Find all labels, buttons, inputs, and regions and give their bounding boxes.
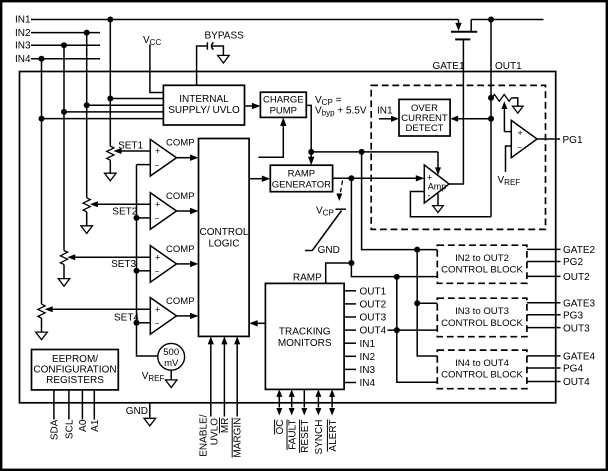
resistor SET1 [107,146,114,173]
svg-text:SDA: SDA [50,419,61,440]
svg-text:OUT1: OUT1 [360,286,387,297]
wire GND pin [149,403,151,419]
ground 500mV reference [165,380,177,388]
wire IN4 to internal supply [42,118,164,120]
node IN1 rail junction [107,17,113,23]
wire VCC to internal supply [150,45,164,93]
svg-text:IN2: IN2 [15,28,31,39]
wire GATE2 pin stub [527,248,561,250]
capacitor bypass plate 1 [206,42,208,49]
block EEPROM / configuration registers [32,350,119,390]
node OUT4 bus junction [394,327,400,333]
svg-text:IN3 to OUT3: IN3 to OUT3 [455,306,509,317]
ground PG1 divider [513,106,524,113]
node feeder junction IN3 [414,300,420,306]
wire SET4 wiper to comparator [45,306,151,312]
wire COMP3 output to control logic [177,261,199,267]
svg-text:+: + [155,304,160,314]
svg-text:OUT2: OUT2 [563,272,590,283]
wire COMP4 output to control logic [177,313,199,319]
wire PG3 pin stub [527,314,561,316]
wire dashed annotation arrow to ramp waveform [336,181,342,202]
svg-text:GATE1: GATE1 [432,61,464,72]
wire SDA pin [53,390,55,420]
svg-text:PG4: PG4 [563,364,583,375]
ground SET2 [81,226,93,234]
svg-text:PUMP: PUMP [270,106,297,117]
wire COMP1 output to control logic [177,155,199,161]
svg-text:−: − [155,267,160,276]
svg-text:CONTROL BLOCK: CONTROL BLOCK [441,265,523,276]
block over current detect [399,99,450,136]
wire IN1 rail right of MOSFET [471,19,543,21]
ground GND pin symbol [144,418,156,426]
svg-text:−: − [517,143,522,152]
wire tracking monitors to control logic [249,320,265,326]
svg-text:PG3: PG3 [563,311,583,322]
wire tracking monitor OUT3 stub [344,316,356,318]
op-amp comparator COMP3 [150,244,194,282]
wire IN1 to internal supply [110,98,163,100]
wire tracking monitor OUT4 stub [344,329,356,331]
svg-text:OUT4: OUT4 [563,377,590,388]
wire IN2 stub [31,32,100,34]
wire IN2 vertical drop to SET2 [86,33,88,198]
svg-text:SYNCH: SYNCH [314,420,325,455]
svg-text:SET3: SET3 [111,259,136,270]
ground amp [433,206,444,213]
svg-text:CONTROL: CONTROL [200,227,249,238]
wire tracking monitor IN2 stub [344,355,356,357]
svg-text:IN4: IN4 [15,54,31,65]
svg-text:IN1: IN1 [377,106,393,117]
wire amp feedback from OUT1 [410,192,491,217]
wire IN2 to internal supply [87,104,164,106]
svg-text:SET1: SET1 [118,140,143,151]
block internal supply / UVLO [163,85,244,125]
svg-text:GATE2: GATE2 [563,245,595,256]
wire feeder stub IN3 block [417,302,437,304]
svg-text:500: 500 [163,347,179,358]
wire ramp generator output to amp [333,175,425,181]
svg-text:OUT3: OUT3 [563,323,590,334]
svg-text:CONTROL BLOCK: CONTROL BLOCK [441,318,523,329]
svg-text:IN1: IN1 [15,15,31,26]
svg-text:MARGIN: MARGIN [233,418,244,458]
svg-text:IN2 to OUT2: IN2 to OUT2 [455,253,509,264]
svg-text:MR: MR [220,418,231,434]
wire SCL pin [68,390,70,420]
wire tracking monitor OUT1 stub [344,290,356,292]
svg-text:+: + [155,146,160,156]
wire tracking monitor IN3 stub [344,368,356,370]
wire OUT1 sense into over current detect [450,116,491,122]
svg-text:FAULT: FAULT [288,420,299,450]
wire OC pin [276,389,282,415]
svg-text:SUPPLY/ UVLO: SUPPLY/ UVLO [168,105,240,116]
wire A0 pin [81,390,83,420]
svg-text:SCL: SCL [65,419,76,439]
svg-text:IN4: IN4 [360,378,376,389]
svg-text:mV: mV [164,358,179,369]
wire bus down to IN4 block [397,277,438,382]
wire ENABLE/UVLO input to control logic [208,336,214,416]
wire control logic to ramp generator [249,176,270,182]
node ramp feed bus junction [394,274,400,280]
voltage reference 500mV [158,343,185,370]
node VREF bus junction COMP4 [134,320,140,326]
svg-text:COMP: COMP [166,244,195,255]
wire tracking monitor IN4 stub [344,382,356,384]
op-amp comparator COMP4 [150,296,194,334]
svg-text:ENABLE/: ENABLE/ [199,414,210,456]
wire COMP2 output to control logic [177,208,199,214]
svg-text:UVLO: UVLO [210,418,221,445]
wire VCP into ramp generator [308,152,314,165]
svg-text:A0: A0 [78,419,89,432]
node IN2 junction [84,30,90,36]
svg-text:-: - [428,191,431,201]
wire A1 pin [93,390,95,420]
transistor external MOSFET [451,20,477,40]
svg-text:BYPASS: BYPASS [205,31,245,42]
wire charge pump output to VCP rail [306,105,311,151]
wire IN1 vertical drop to SET1 [109,20,111,147]
block IN4 to OUT4 control block (dashed) [437,350,527,389]
svg-text:COMP: COMP [166,191,195,202]
svg-text:GATE4: GATE4 [563,352,595,363]
svg-text:OUT3: OUT3 [360,313,387,324]
node IN4 junction [39,56,45,62]
wire OUT2 pin stub [527,275,561,277]
wire SET1 wiper to comparator [114,148,151,154]
wire amp ground stem [437,193,439,205]
wire tracking monitor OUT2 stub [344,303,356,305]
svg-text:TRACKING: TRACKING [279,327,331,338]
wire OUT3 pin stub [527,327,561,329]
wire PG1 inverting input to VREF [506,146,512,172]
wire PG1 wiper to comparator [501,101,511,131]
svg-text:OC: OC [275,420,286,435]
wire SET2 wiper to comparator [90,201,150,207]
wire COMP3 inverting input [137,270,151,272]
wire IN1 top rail [31,19,459,21]
svg-text:GENERATOR: GENERATOR [272,179,331,190]
svg-text:IN3: IN3 [15,41,31,52]
op-amp comparator COMP1 [150,138,194,176]
block IN2 to OUT2 control block (dashed) [437,245,527,283]
wire GATE3 pin stub [527,302,561,304]
wire IN3 to internal supply [64,111,163,113]
svg-text:PG2: PG2 [563,257,583,268]
resistor SET4 [38,304,45,332]
wire SET3 wiper to comparator [67,254,150,260]
wire MARGIN input to control logic [234,336,240,416]
svg-text:INTERNAL: INTERNAL [179,94,229,105]
svg-text:RAMP: RAMP [288,168,315,179]
block ramp generator [270,165,332,192]
wire COMP4 inverting input [137,322,151,324]
svg-text:ALERT: ALERT [328,420,339,452]
ground SET3 [58,279,70,287]
svg-text:A1: A1 [90,419,101,432]
block IN3 to OUT3 control block (dashed) [437,298,527,337]
wire GATE4 pin stub [527,355,561,357]
wire IN3 stub [31,44,100,46]
node IN3 supply tap [61,109,67,115]
svg-text:−: − [155,161,160,170]
wire GATE1 vertical from gate to amp output [449,39,463,184]
node IN2 supply tap [84,102,90,108]
wire FAULT pin [289,389,295,415]
wire OUT1 vertical [490,20,492,217]
wire IN4 vertical drop to SET4 [41,59,43,304]
node ramp output tap [348,175,354,181]
svg-text:RESET: RESET [300,420,311,453]
wire OUT4 pin stub [527,381,561,383]
svg-text:MONITORS: MONITORS [278,338,332,349]
svg-text:CHARGE: CHARGE [263,95,304,106]
wire IN3 vertical drop to SET3 [63,45,65,250]
wire VCP drive into amp [435,152,441,175]
wire ramp to tracking monitors [326,263,352,283]
node ramp feed tracking tap [348,260,354,266]
wire feeder to IN3 and IN4 blocks [417,250,437,356]
node VREF bus junction COMP3 [134,268,140,274]
capacitor bypass plate 2 (curved) [212,42,214,49]
svg-text:IN2: IN2 [360,352,376,363]
node VCP rail ramp tap [308,149,314,155]
resistor SET3 [60,251,67,279]
svg-text:CONTROL BLOCK: CONTROL BLOCK [441,370,523,381]
svg-text:DETECT: DETECT [406,123,444,134]
node OUT1 sense junction [488,116,494,122]
wire bypass from internal supply top [197,46,207,85]
svg-text:OUT1: OUT1 [495,61,522,72]
op-amp comparator COMP2 [150,191,194,229]
wire COMP1 inverting input to VREF bus [137,164,151,166]
block IN1 to OUT1 control block (dashed) [371,85,545,229]
svg-text:REGISTERS: REGISTERS [46,375,104,386]
node OUT1 divider junction [488,95,494,101]
svg-text:IN1: IN1 [360,339,376,350]
wire PG1 output [537,138,560,140]
wire VCP rail [311,151,438,153]
ground bypass [218,55,230,63]
node OUT1 rail junction [488,17,494,23]
svg-text:GATE3: GATE3 [563,298,595,309]
svg-text:+: + [155,252,160,262]
node IN1 supply tap [107,96,113,102]
svg-text:EEPROM/: EEPROM/ [52,354,98,365]
svg-text:RAMP: RAMP [293,273,322,284]
chip boundary box [20,72,556,403]
wire ramp feed to control blocks [351,178,437,276]
op-amp PG1 comparator [511,120,537,157]
label ENABLE/UVLO pin [199,414,221,456]
wire IN1 into over current detect [379,116,399,122]
svg-text:SET2: SET2 [112,207,137,218]
label VCP ramp waveform [305,206,346,257]
wire IN4 stub [31,58,100,60]
svg-text:Amp: Amp [428,181,447,191]
svg-text:OUT2: OUT2 [360,300,387,311]
wire VREF bus vertical [137,165,159,356]
wire PG4 pin stub [527,367,561,369]
block charge pump [260,92,306,117]
block tracking monitors [265,283,344,389]
svg-text:OUT4: OUT4 [360,326,387,337]
svg-text:+: + [518,128,523,138]
node IN4 supply tap [39,116,45,122]
svg-text:CONFIGURATION: CONFIGURATION [33,364,116,375]
svg-text:COMP: COMP [166,296,195,307]
svg-text:IN4 to OUT4: IN4 to OUT4 [455,358,510,369]
wire COMP2 inverting input [137,217,151,219]
svg-text:GND: GND [318,245,340,256]
svg-text:−: − [155,319,160,328]
svg-text:GND: GND [126,406,148,417]
wire PG2 pin stub [527,261,561,263]
svg-text:+: + [155,199,160,209]
wire internal supply to charge pump [245,103,261,109]
wire MR input to control logic [221,336,227,416]
wire bypass to ground [212,46,224,55]
svg-text:PG1: PG1 [563,135,583,146]
svg-text:IN3: IN3 [360,365,376,376]
node VCP rail block feed tap [359,149,365,155]
node IN3 junction [61,42,67,48]
wire RESET pin [301,389,307,415]
label VCP equation [315,95,367,118]
wire 500mV to ground [170,370,172,380]
wire tracking OUT4 to control blocks [388,329,438,331]
wire SYNCH pin [315,389,321,415]
op-amp Amp gate driver [424,165,449,203]
node VREF bus junction COMP2 [134,215,140,221]
wire charge pump feed stub [259,117,287,157]
block control logic [199,139,250,337]
svg-text:−: − [155,214,160,223]
wire ALERT pin [329,389,335,415]
svg-text:LOGIC: LOGIC [208,239,239,250]
resistor SET2 [83,198,90,226]
resistor PG1 divider [492,95,518,107]
ground SET1 [105,173,117,181]
node feeder junction IN2 [414,247,420,253]
wire tracking monitor IN1 stub [344,342,356,344]
svg-text:COMP: COMP [166,138,195,149]
ground SET4 [36,332,48,340]
wire VCP feed to IN2 block [362,152,438,250]
